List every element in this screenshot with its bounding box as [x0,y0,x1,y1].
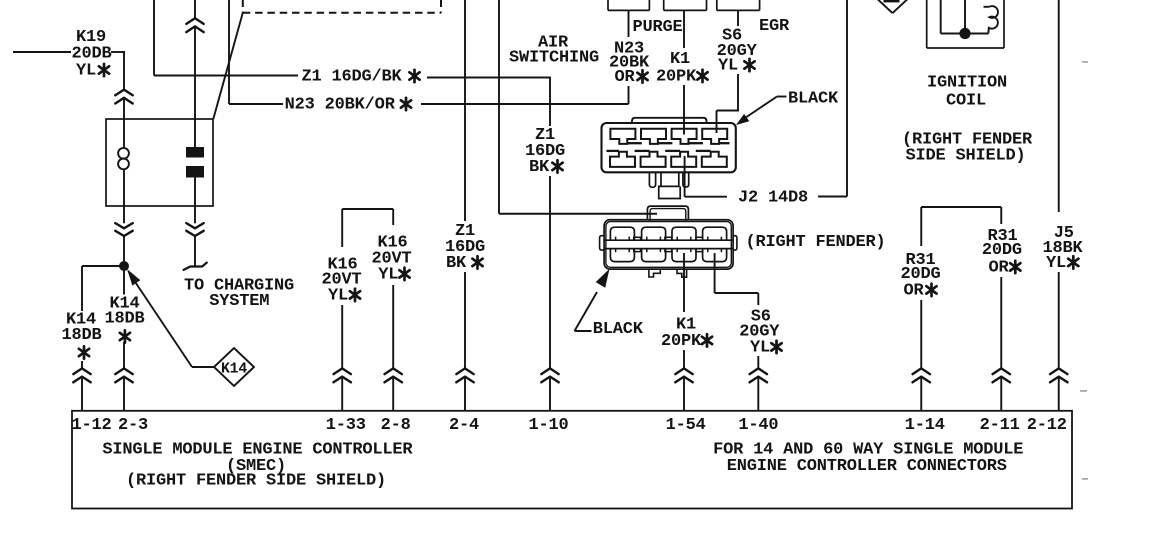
svg-text:N23 20BK/OR: N23 20BK/OR [285,96,396,115]
svg-text:OR: OR [988,259,1009,278]
svg-text:YL: YL [750,339,770,358]
svg-text:1-12: 1-12 [71,416,111,435]
svg-text:YL: YL [1046,254,1066,273]
svg-text:2-3: 2-3 [118,416,148,435]
svg-text:1-40: 1-40 [738,416,778,435]
svg-text:(RIGHT FENDER): (RIGHT FENDER) [745,233,885,252]
svg-text:YL: YL [378,266,398,285]
svg-text:1-14: 1-14 [905,416,945,435]
svg-text:EGR: EGR [759,17,790,36]
svg-text:2-11: 2-11 [980,416,1020,435]
svg-text:20PK: 20PK [656,68,697,87]
svg-text:SWITCHING: SWITCHING [509,49,599,68]
svg-text:1-54: 1-54 [666,416,706,435]
svg-text:K14: K14 [221,362,247,378]
svg-text:18DB: 18DB [61,326,101,345]
svg-text:SYSTEM: SYSTEM [209,292,269,311]
svg-text:OR: OR [903,282,924,301]
svg-text:K1: K1 [670,50,690,69]
svg-text:20DG: 20DG [982,241,1022,260]
svg-text:2-4: 2-4 [449,416,479,435]
svg-text:IGNITION: IGNITION [927,74,1007,93]
svg-text:OR: OR [614,68,635,87]
svg-text:BLACK: BLACK [593,320,644,339]
svg-text:1-33: 1-33 [326,416,366,435]
svg-text:20PK: 20PK [661,332,702,351]
svg-text:PURGE: PURGE [632,18,682,37]
svg-text:ENGINE CONTROLLER CONNECTORS: ENGINE CONTROLLER CONNECTORS [727,457,1007,476]
svg-text:YL: YL [328,287,348,306]
svg-text:BK: BK [446,254,467,273]
svg-text:BLACK: BLACK [788,90,839,109]
svg-text:Z1 16DG/BK: Z1 16DG/BK [301,68,402,87]
svg-text:1-10: 1-10 [528,416,568,435]
svg-text:YL: YL [76,62,96,81]
svg-text:BK: BK [529,158,550,177]
svg-text:COIL: COIL [946,92,986,111]
svg-text:SIDE SHIELD): SIDE SHIELD) [905,147,1025,166]
svg-text:J2 14D8: J2 14D8 [738,189,808,208]
svg-text:(RIGHT FENDER SIDE SHIELD): (RIGHT FENDER SIDE SHIELD) [126,472,386,491]
svg-text:2-8: 2-8 [381,416,411,435]
svg-text:YL: YL [718,57,738,76]
svg-text:2-12: 2-12 [1027,416,1067,435]
svg-text:18DB: 18DB [104,310,144,329]
